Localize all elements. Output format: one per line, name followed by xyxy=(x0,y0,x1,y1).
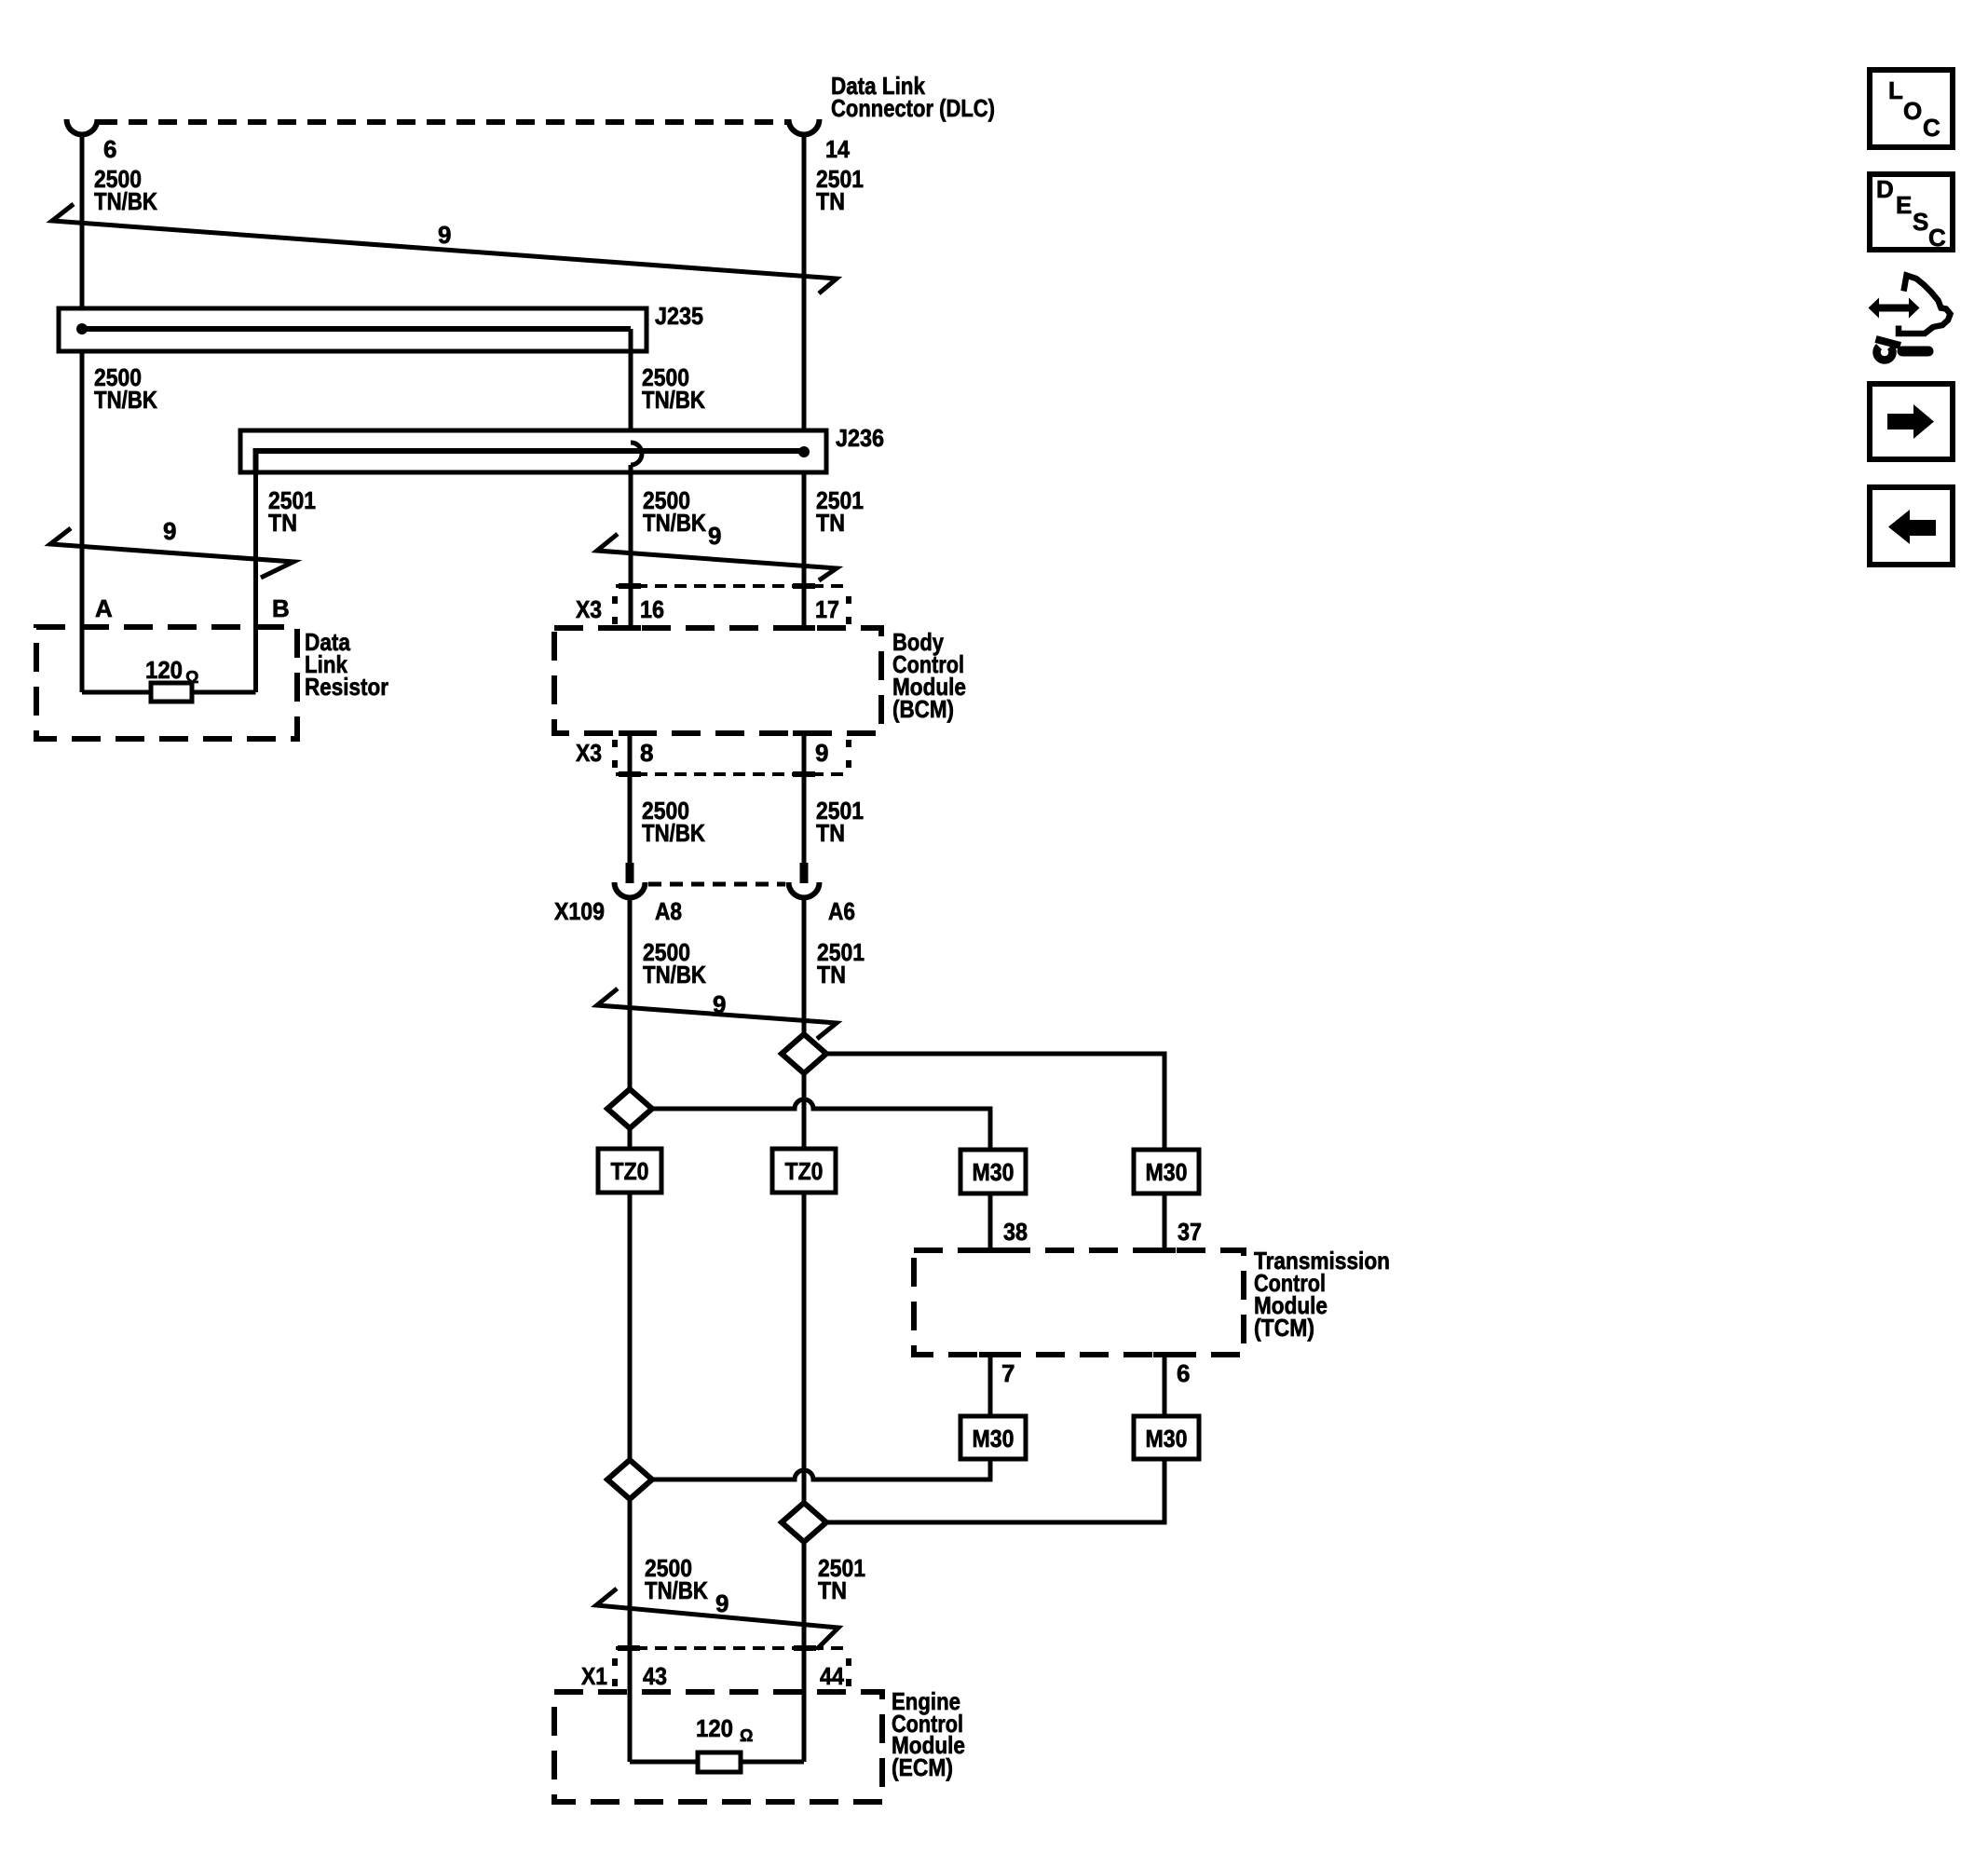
off-page arrow 9 (above ECM) xyxy=(596,1588,838,1649)
connector X109 terminal A6 xyxy=(800,863,809,883)
svg-text:E: E xyxy=(1896,191,1912,219)
svg-text:TN: TN xyxy=(816,819,845,847)
label 2500 TN/BK above ECM xyxy=(645,1554,708,1604)
pin label A xyxy=(95,594,113,622)
connector DLC dashed outline xyxy=(99,119,787,125)
svg-text:(BCM): (BCM) xyxy=(892,695,954,723)
pin number 14 xyxy=(825,135,850,163)
label 9 subscript (arrow to BCM) xyxy=(708,522,721,550)
svg-text:TZ0: TZ0 xyxy=(785,1157,824,1185)
svg-text:X109: X109 xyxy=(554,897,605,925)
label 2501 TN above BCM xyxy=(816,486,864,537)
wire TCM pin 6 to M30 xyxy=(1163,1355,1167,1416)
svg-text:A6: A6 xyxy=(828,897,855,925)
icon arrow left box xyxy=(1870,487,1953,565)
junction dot on colA at J235 xyxy=(76,323,88,334)
wire from M30 lower-left to D3 with hop over col2 xyxy=(652,1459,990,1479)
svg-text:X3: X3 xyxy=(576,739,602,767)
wire 2500 TN/BK from BCM pin 8 xyxy=(628,733,633,863)
svg-text:9: 9 xyxy=(815,739,828,767)
wire 2500 TN/BK below X109 xyxy=(628,899,633,1089)
svg-text:120: 120 xyxy=(145,656,183,684)
wire 2500 TN/BK from D2 down to TZ0 xyxy=(628,1128,633,1149)
pin number 43 xyxy=(643,1662,667,1690)
label X3 (bottom) xyxy=(576,739,602,767)
wire from D2 to M30 left column with hop over col2 xyxy=(652,1099,990,1150)
svg-text:Resistor: Resistor xyxy=(305,673,388,701)
data link resistor dashed box xyxy=(36,627,297,739)
label 2500 TN/BK below J235 left xyxy=(94,363,157,414)
wire 2501 TN from DLC pin 14 (col2 upper) xyxy=(802,136,807,628)
svg-text:M30: M30 xyxy=(1146,1158,1188,1186)
wire M30 to TCM pin 37 xyxy=(1163,1193,1167,1250)
label 2500 TN/BK above BCM xyxy=(643,486,706,537)
splice J235 box xyxy=(59,308,647,351)
wire 2500 TN/BK from J235 down (col1) xyxy=(629,329,633,443)
svg-text:14: 14 xyxy=(825,135,850,163)
svg-text:9: 9 xyxy=(713,990,726,1018)
svg-text:TN: TN xyxy=(268,509,297,537)
label 2501 TN on wire B xyxy=(268,486,316,537)
icon view direction (animal head with arrow and wrench) xyxy=(1869,276,1951,361)
pin cap 7 at TCM bottom edge xyxy=(979,1352,1001,1357)
label 9 (DLR arrow) xyxy=(163,517,176,545)
svg-text:X3: X3 xyxy=(576,595,602,623)
svg-text:Ω: Ω xyxy=(740,1726,753,1745)
pin number 7 xyxy=(1001,1359,1014,1387)
node DLC label xyxy=(831,72,995,122)
svg-text:17: 17 xyxy=(815,595,839,623)
label 9 subscript (arrow to ECM) xyxy=(715,1589,728,1617)
svg-text:S: S xyxy=(1913,208,1928,236)
svg-text:9: 9 xyxy=(708,522,721,550)
svg-text:TN: TN xyxy=(818,1576,847,1604)
off-page arrow 9 (to BCM) xyxy=(597,534,837,580)
svg-text:D: D xyxy=(1876,175,1894,203)
splice pack M30 (upper left) xyxy=(960,1150,1026,1193)
svg-text:9: 9 xyxy=(438,221,451,249)
connector X3 strip bottom (BCM pins 8/9) xyxy=(615,740,849,774)
svg-text:43: 43 xyxy=(643,1662,667,1690)
svg-text:8: 8 xyxy=(640,739,653,767)
label J236 xyxy=(836,424,884,452)
wire M30 to TCM pin 38 xyxy=(988,1193,993,1250)
pin number 37 xyxy=(1178,1218,1202,1246)
pin cap 6 at TCM bottom edge xyxy=(1153,1352,1176,1357)
label X1 xyxy=(581,1662,607,1690)
svg-text:X1: X1 xyxy=(581,1662,607,1690)
wire 2501 TN from D4 to ECM xyxy=(802,1542,807,1762)
icon DESC box xyxy=(1870,174,1953,252)
svg-text:44: 44 xyxy=(820,1662,844,1690)
svg-text:C: C xyxy=(1928,224,1946,252)
svg-text:38: 38 xyxy=(1003,1218,1028,1246)
wire 2501 TN below X109 xyxy=(802,899,807,1034)
svg-text:B: B xyxy=(272,594,290,622)
module TCM dashed box xyxy=(914,1250,1244,1355)
wire 2500 TN/BK from DLC pin 6 (colA) xyxy=(80,136,85,692)
label wire 2500 TN/BK top xyxy=(94,165,157,215)
pin label A6 xyxy=(828,897,855,925)
splice J236 box xyxy=(240,430,826,472)
pin cap 38 at TCM edge xyxy=(979,1248,1001,1253)
svg-text:6: 6 xyxy=(1177,1359,1190,1387)
splice pack TZ0 (left) xyxy=(598,1149,661,1193)
svg-text:(ECM): (ECM) xyxy=(892,1753,953,1781)
off-page arrow 9 (data link resistor) xyxy=(50,528,293,578)
label 9 (below X109) xyxy=(713,990,726,1018)
svg-text:TN/BK: TN/BK xyxy=(643,509,706,537)
label 120 ohm (ECM) xyxy=(696,1714,753,1745)
svg-text:TN: TN xyxy=(817,961,846,989)
connector X109 cup A8 xyxy=(615,882,646,898)
svg-text:J235: J235 xyxy=(655,302,703,330)
label 120 ohm (DLR) xyxy=(145,656,198,687)
splice pack M30 (lower left) xyxy=(960,1416,1026,1459)
connector DLC pin 6 cup xyxy=(67,119,98,135)
svg-text:9: 9 xyxy=(715,1589,728,1617)
splice pack M30 (lower right) xyxy=(1134,1416,1199,1459)
pin cap 37 at TCM edge xyxy=(1153,1248,1176,1253)
svg-text:M30: M30 xyxy=(973,1158,1014,1186)
pin cap 8 at BCM bottom edge xyxy=(619,730,641,736)
junction dot on col2 at J236 xyxy=(798,446,810,457)
off-page arrow 9 (below X109) xyxy=(597,989,837,1039)
connector X3 strip top (BCM pins 16/17) xyxy=(615,586,849,624)
wire 2500 TN/BK from D3 to ECM xyxy=(628,1499,633,1762)
svg-text:TN/BK: TN/BK xyxy=(94,187,157,215)
svg-text:(TCM): (TCM) xyxy=(1254,1314,1314,1342)
pin number 8 xyxy=(640,739,653,767)
label X109 xyxy=(554,897,605,925)
splice pack M30 (upper right) xyxy=(1134,1150,1199,1193)
connector X109 cup A6 xyxy=(789,882,820,898)
svg-text:Connector (DLC): Connector (DLC) xyxy=(831,94,995,122)
label X3 (top) xyxy=(576,595,602,623)
connector DLC pin 14 cup xyxy=(789,119,820,135)
wire from D1 to M30 right column xyxy=(826,1054,1164,1150)
svg-text:J236: J236 xyxy=(836,424,884,452)
label 2501 TN above ECM xyxy=(818,1554,865,1604)
pin number 6 xyxy=(103,135,116,163)
wire 2501 TN from BCM pin 9 xyxy=(802,733,807,863)
svg-text:TN/BK: TN/BK xyxy=(643,961,706,989)
pin cap 9 at BCM bottom edge xyxy=(793,730,815,736)
label Engine Control Module (ECM) xyxy=(892,1687,965,1781)
svg-text:L: L xyxy=(1888,76,1903,104)
wire 2500 TN/BK from TZ0 down to D3 xyxy=(628,1193,633,1460)
icon LOC box xyxy=(1870,70,1953,147)
pin label B xyxy=(272,594,290,622)
label 2500 TN/BK below J235 right xyxy=(642,363,705,414)
wire 2501 TN from D1 down to TZ0 xyxy=(802,1073,807,1149)
pin number 6 xyxy=(1177,1359,1190,1387)
label 2501 TN below BCM xyxy=(816,797,864,847)
pin cap 16 at BCM edge xyxy=(619,625,641,631)
svg-text:O: O xyxy=(1903,97,1922,125)
svg-text:A: A xyxy=(95,594,113,622)
wire TCM pin 7 to M30 xyxy=(988,1355,993,1416)
svg-text:37: 37 xyxy=(1178,1218,1202,1246)
resistor R2 120 ohm (ECM) xyxy=(630,1752,804,1772)
module BCM dashed box xyxy=(554,628,881,733)
connector X109 terminal A8 xyxy=(626,863,634,883)
svg-text:C: C xyxy=(1923,114,1940,142)
splice diamond D2 on 2500 TN/BK xyxy=(607,1089,652,1128)
svg-text:TN/BK: TN/BK xyxy=(642,386,705,414)
svg-text:120: 120 xyxy=(696,1714,733,1742)
off-page arrow 9 (top) xyxy=(52,204,837,293)
label 9 (top arrow) xyxy=(438,221,451,249)
wire 2501 TN from TZ0 down to D4 xyxy=(802,1193,807,1503)
svg-text:16: 16 xyxy=(640,595,664,623)
svg-text:M30: M30 xyxy=(973,1425,1014,1452)
wire hop of col1 over J236 bus xyxy=(631,443,642,465)
module ECM dashed box xyxy=(554,1692,882,1802)
resistor R1 120 ohm xyxy=(82,683,256,702)
svg-text:TN: TN xyxy=(816,187,845,215)
pin number 38 xyxy=(1003,1218,1028,1246)
splice pack TZ0 (right) xyxy=(772,1149,836,1193)
svg-text:TN/BK: TN/BK xyxy=(642,819,705,847)
splice diamond D4 on 2501 TN xyxy=(782,1503,826,1542)
pin number 9 xyxy=(815,739,828,767)
label J235 xyxy=(655,302,703,330)
pin label A8 xyxy=(655,897,682,925)
wire B from J236 down (colB) xyxy=(253,472,258,692)
label wire 2501 TN top xyxy=(816,165,864,215)
svg-text:TN/BK: TN/BK xyxy=(94,386,157,414)
label Transmission Control Module (TCM) xyxy=(1254,1247,1390,1342)
wire from M30 lower-right to D4 xyxy=(826,1459,1164,1522)
label Data Link Resistor xyxy=(305,628,388,701)
label 2500 TN/BK below BCM xyxy=(642,797,705,847)
wire col1 from J236 to BCM pin 16 xyxy=(629,465,633,628)
splice diamond D1 on 2501 TN xyxy=(782,1034,826,1073)
splice diamond D3 on 2500 TN/BK xyxy=(607,1460,652,1499)
svg-text:TN: TN xyxy=(816,509,845,537)
svg-text:6: 6 xyxy=(103,135,116,163)
svg-text:A8: A8 xyxy=(655,897,682,925)
splice J235 bus xyxy=(82,326,631,332)
svg-text:7: 7 xyxy=(1001,1359,1014,1387)
label 2501 TN below X109 xyxy=(817,938,865,989)
svg-text:M30: M30 xyxy=(1146,1425,1188,1452)
svg-text:TZ0: TZ0 xyxy=(611,1157,649,1185)
pin number 16 xyxy=(640,595,664,623)
pin cap 17 at BCM edge xyxy=(793,625,815,631)
label 2500 TN/BK below X109 xyxy=(643,938,706,989)
pin number 17 xyxy=(815,595,839,623)
splice J236 bus xyxy=(256,451,803,472)
icon arrow right box xyxy=(1870,384,1953,459)
svg-text:9: 9 xyxy=(163,517,176,545)
connector X109 dashed line xyxy=(648,882,785,887)
pin number 44 xyxy=(820,1662,844,1690)
connector X1 strip (ECM pins 43/44) xyxy=(615,1648,849,1686)
label Body Control Module (BCM) xyxy=(892,628,966,723)
svg-text:TN/BK: TN/BK xyxy=(645,1576,708,1604)
